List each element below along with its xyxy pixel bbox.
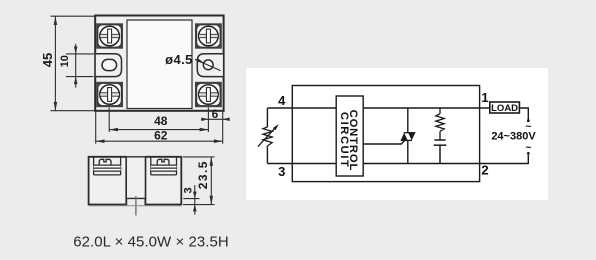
svg-text:24~380V: 24~380V <box>491 131 536 143</box>
center raised cover <box>127 20 192 109</box>
leader line for hole diameter <box>195 59 221 70</box>
dim 48 arrows <box>109 128 118 132</box>
wire: terminal 4 to control circuit <box>267 107 336 109</box>
wire: source bottom to terminal 2 <box>480 155 529 164</box>
snubber resistor R1 <box>436 108 444 140</box>
screw terminal M1 (top-left) <box>96 23 123 48</box>
left block terminal clamp <box>94 158 121 176</box>
dim 48: extension lines <box>108 108 110 133</box>
svg-text:1: 1 <box>481 90 488 105</box>
svg-text:~: ~ <box>525 141 531 153</box>
dim 62: dimension line <box>96 140 223 142</box>
varistor RV (input protection) <box>258 126 277 146</box>
left mounting slot pocket <box>96 54 122 77</box>
wire: load to source top <box>519 108 528 120</box>
dim 6 arrows <box>201 118 208 122</box>
center bottom stub line <box>135 196 137 216</box>
dim 10: extension lines <box>66 53 94 55</box>
dim 48: dimension line <box>109 129 208 131</box>
screw terminal M2 (top-right) <box>195 23 222 48</box>
wire: triac branch vertical <box>407 108 409 132</box>
dim 45: dimension line <box>54 16 56 111</box>
svg-text:45: 45 <box>40 53 55 67</box>
svg-text:3: 3 <box>278 164 285 179</box>
source terminal dot bottom <box>527 152 530 155</box>
right mounting slot pocket <box>197 54 223 77</box>
left slot hole <box>102 59 117 70</box>
side view left block <box>89 157 127 205</box>
wire: output bottom (control circuit to terminal 2) <box>363 163 479 165</box>
dim 62: extension lines <box>95 112 97 144</box>
SSR outline box <box>292 86 479 182</box>
side view center recess <box>126 157 145 199</box>
right mounting hole circle <box>203 60 213 70</box>
dim 23.5 arrows <box>210 157 214 166</box>
svg-text:LOAD: LOAD <box>491 103 518 114</box>
screw terminal M3 (bottom-left) <box>96 82 123 107</box>
svg-text:10: 10 <box>59 55 71 67</box>
dim 45: extension lines <box>51 15 96 17</box>
svg-text:23.5: 23.5 <box>196 160 210 189</box>
relay body outline <box>95 16 223 111</box>
wire: input left vertical <box>266 108 268 127</box>
load box <box>490 102 520 113</box>
source terminal dot top <box>527 119 530 122</box>
svg-text:62: 62 <box>154 129 168 143</box>
dim 23.5: dimension line <box>210 157 212 205</box>
svg-text:ø4.5: ø4.5 <box>165 52 193 67</box>
svg-text:6: 6 <box>212 109 218 121</box>
dim 10: dimension line <box>75 44 77 88</box>
dim 3: dimension line <box>194 185 196 215</box>
svg-text:48: 48 <box>154 114 168 128</box>
dim 62 arrows <box>96 139 105 143</box>
base bottom edge seen through recess <box>89 205 181 207</box>
triac Q1 <box>401 133 416 141</box>
snubber capacitor C1 <box>434 140 447 164</box>
dim 23.5: extension lines <box>183 156 215 158</box>
wire: output top (control circuit to terminal 1) <box>363 107 490 109</box>
screw terminal M4 (bottom-right) <box>195 82 222 107</box>
white schematic panel <box>246 68 548 200</box>
dim 45 arrows <box>54 16 58 25</box>
dim 6: dimension line <box>201 118 229 120</box>
right block terminal clamp <box>151 158 177 176</box>
dim 3: extension lines <box>183 198 199 200</box>
svg-text:3: 3 <box>182 187 194 193</box>
control circuit box U1 <box>336 96 363 176</box>
svg-text:4: 4 <box>278 93 286 108</box>
dim 10 arrows <box>74 46 78 54</box>
side view right block <box>145 157 181 205</box>
svg-text:62.0L × 45.0W × 23.5H: 62.0L × 45.0W × 23.5H <box>73 234 229 251</box>
wire: gate from control circuit <box>363 140 405 144</box>
dim 3 arrows <box>193 192 197 199</box>
svg-text:CIRCUIT: CIRCUIT <box>338 112 350 169</box>
wire: terminal 3 to control circuit <box>267 163 336 165</box>
svg-text:2: 2 <box>481 163 488 178</box>
